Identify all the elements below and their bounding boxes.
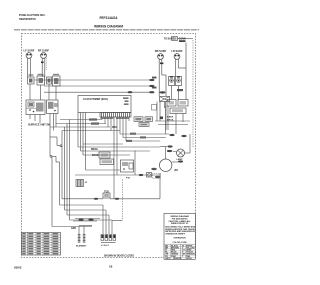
legend paragraph: [165, 225, 196, 235]
wire right horizontals at 121: [155, 121, 190, 125]
EOC connector strip hatched: [100, 113, 131, 118]
wire group left drop: [62, 120, 70, 221]
table cell text smudges: [22, 233, 58, 254]
color code divider: [180, 244, 182, 259]
fuse F2 box: [47, 77, 52, 84]
bus wire 2 below EOC: [56, 123, 106, 125]
node blob under limiter: [179, 40, 186, 42]
heater element symbol 1: [78, 226, 81, 243]
oven light circle: [177, 149, 185, 161]
limiter box A label: [38, 74, 44, 75]
wire run mid 137.5: [123, 136, 166, 138]
wire lamp connections: [160, 134, 190, 153]
small box row B: [100, 159, 114, 165]
EOC pin numbers under strip: [101, 118, 130, 119]
svg-text:P16: P16: [126, 178, 131, 180]
limiter box B: [53, 76, 61, 86]
color code list: [165, 244, 195, 260]
header separator line: [14, 29, 199, 31]
wire terminal row 222: [73, 219, 100, 226]
relay cluster box D: [178, 100, 188, 107]
fuse F1 inner mark: [29, 79, 33, 83]
svg-text:RR SURF: RR SURF: [155, 49, 167, 53]
relay cluster box E: [170, 108, 186, 114]
oven box outline wires: [78, 113, 160, 171]
terminal block TB: [101, 235, 116, 243]
vertical wire mid: [134, 151, 136, 176]
legend box: [164, 214, 195, 260]
svg-text:OPERATION VERIFY: OPERATION VERIFY: [165, 233, 186, 236]
svg-text:GRN/YEL: GRN/YEL: [173, 258, 183, 260]
legend header text: [169, 215, 192, 225]
surface unit LR: [174, 54, 180, 60]
surface unit LF: [26, 53, 32, 59]
wire RR down pair: [159, 59, 166, 96]
color code rule: [164, 243, 195, 245]
limiter box A inner: [39, 78, 44, 83]
small box row A: [99, 152, 110, 158]
svg-text:L1 N L2: L1 N L2: [101, 245, 110, 247]
svg-text:WIRES PRIOR TO: WIRES PRIOR TO: [171, 223, 189, 225]
wires switch row verticals: [30, 84, 56, 100]
small aux box left of relay: [152, 105, 157, 111]
terminal blobs left of lamp: [167, 145, 183, 162]
mid relay box H: [139, 123, 149, 127]
svg-text:GRD: GRD: [71, 228, 76, 230]
wire drops from EOC connector: [102, 117, 129, 199]
wire labels mid left: [91, 149, 99, 157]
svg-text:DBK: DBK: [112, 127, 117, 129]
node blob on N wire at SU3: [160, 91, 166, 93]
limiter box B label: [53, 74, 59, 75]
svg-text:GOLD: GOLD: [186, 258, 192, 260]
fuse F2 inner mark: [48, 79, 51, 83]
bus wire 3 below EOC: [50, 126, 110, 128]
svg-text:ELEMENT: ELEMENT: [76, 246, 87, 248]
wire jog with junction A: [50, 137, 62, 147]
wires below switch blocks: [30, 114, 56, 131]
wire LF down pair: [28, 58, 31, 77]
wire jog with junction B: [50, 125, 92, 227]
fuse F1 box: [28, 77, 35, 84]
fuse F1 label: [29, 74, 34, 75]
svg-text:18: 18: [109, 265, 113, 269]
svg-text:LR SURF: LR SURF: [171, 49, 183, 53]
wiring chart table: [22, 233, 61, 256]
EOC pin labels right: [123, 98, 129, 105]
limiter box A: [37, 76, 45, 85]
wires right cluster verticals: [160, 76, 186, 134]
wire bus L2 to right: [44, 85, 154, 87]
svg-text:FEF314ASA: FEF314ASA: [99, 16, 118, 20]
bus wire 4: [62, 130, 120, 132]
bake element circle: [151, 147, 178, 172]
wire bus L1 to right: [34, 79, 154, 81]
latch switch cluster: [121, 160, 134, 172]
svg-text:OPERATION: OPERATION: [173, 237, 186, 240]
mid relay box G: [145, 117, 153, 122]
svg-text:SHOWN W/ DOOR CLOSED: SHOWN W/ DOOR CLOSED: [104, 255, 134, 257]
connector J2 hatched: [76, 180, 88, 187]
wire RF down pair with terminal: [41, 58, 47, 77]
svg-text:LAMP: LAMP: [177, 158, 184, 161]
TOD box: [103, 193, 110, 198]
svg-text:COLOR CODE: COLOR CODE: [173, 242, 188, 244]
svg-text:BAKE: BAKE: [92, 154, 99, 157]
publication number text: [19, 13, 46, 21]
surface switch RF block: [47, 100, 59, 114]
sensor dashed drop: [112, 180, 122, 221]
limiter box B inner: [54, 78, 59, 84]
thermal limiter box: [172, 37, 194, 41]
indicator light A box: [169, 76, 175, 86]
svg-text:RF SURF: RF SURF: [38, 49, 50, 53]
oven control EOC box: [78, 96, 131, 113]
bus node blob 1: [89, 118, 97, 120]
wire LR down pair with jog: [176, 43, 186, 77]
svg-text:03/02: 03/02: [14, 266, 22, 270]
relay cluster box C: [167, 100, 176, 107]
bus wire 1 below EOC: [60, 119, 102, 121]
svg-text:BROIL: BROIL: [91, 149, 99, 151]
svg-text:5995358750: 5995358750: [19, 17, 36, 21]
wire long 198.8: [62, 173, 160, 200]
relay K1 box with X: [160, 97, 170, 102]
diagram border: [22, 34, 196, 258]
heater element symbol 2: [83, 226, 86, 243]
color code grid lines: [164, 244, 195, 259]
wire run mid 141: [126, 140, 160, 142]
fuse run horizontal 175: [75, 173, 161, 180]
svg-text:J2: J2: [85, 182, 88, 184]
svg-text:BK: BK: [175, 169, 179, 172]
surface unit RF: [41, 53, 47, 59]
wire verticals mid right: [166, 102, 169, 135]
bus node blob 2: [91, 122, 99, 124]
wire run mid 134 with terminals: [120, 133, 187, 137]
node blob under light B: [177, 89, 183, 91]
wire vertical x157: [156, 102, 158, 122]
surface unit RR: [158, 54, 164, 60]
svg-text:WIRING DIAGRAM: WIRING DIAGRAM: [94, 25, 123, 29]
indicator light B box: [176, 76, 182, 86]
wire bus N to right: [44, 91, 154, 93]
wire bends into bottom center: [60, 205, 113, 234]
surface switch LF block: [26, 100, 45, 115]
wire label blob left B: [152, 87, 157, 89]
svg-text:SURFACE UNIT SW: SURFACE UNIT SW: [28, 124, 51, 127]
wire label blob left A: [152, 77, 157, 79]
svg-text:LF SURF: LF SURF: [24, 49, 35, 53]
wire right border vertical: [192, 40, 194, 148]
mid relay box F: [134, 117, 143, 122]
svg-text:GN/Y: GN/Y: [165, 258, 171, 260]
svg-text:CLOCK/TIMER (EOC): CLOCK/TIMER (EOC): [83, 98, 108, 101]
